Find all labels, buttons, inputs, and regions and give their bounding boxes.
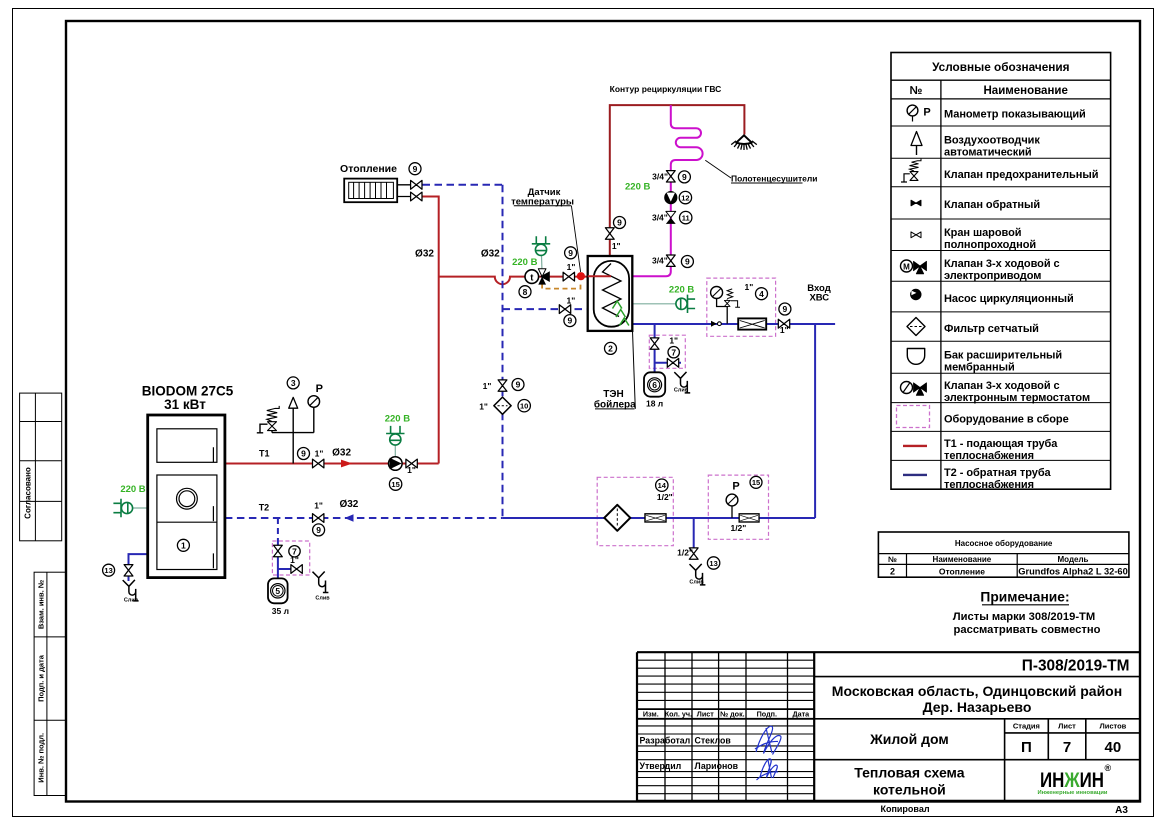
svg-text:Утвердил: Утвердил bbox=[640, 761, 682, 771]
svg-text:1": 1" bbox=[407, 465, 416, 475]
svg-text:Примечание:: Примечание: bbox=[980, 590, 1069, 605]
svg-text:Т2 - обратная труба: Т2 - обратная труба bbox=[944, 467, 1052, 479]
svg-text:Согласовано: Согласовано bbox=[24, 467, 33, 519]
svg-text:Насосное оборудование: Насосное оборудование bbox=[955, 539, 1053, 548]
svg-text:Наименование: Наименование bbox=[984, 85, 1068, 97]
svg-text:14: 14 bbox=[658, 481, 667, 490]
svg-text:Слив: Слив bbox=[124, 597, 139, 603]
svg-text:бойлера: бойлера bbox=[594, 398, 636, 410]
svg-text:Слив: Слив bbox=[674, 388, 689, 394]
svg-text:Тепловая схема: Тепловая схема bbox=[854, 765, 964, 781]
svg-text:10: 10 bbox=[520, 402, 528, 411]
svg-text:13: 13 bbox=[709, 559, 717, 568]
svg-text:П: П bbox=[1021, 739, 1032, 756]
svg-text:9: 9 bbox=[682, 172, 687, 182]
svg-text:Подп.: Подп. bbox=[757, 710, 777, 719]
svg-text:Лист: Лист bbox=[1058, 722, 1076, 731]
svg-text:31 кВт: 31 кВт bbox=[164, 397, 206, 412]
svg-text:3: 3 bbox=[291, 378, 296, 388]
svg-text:1/2": 1/2" bbox=[730, 523, 746, 533]
svg-text:7: 7 bbox=[1063, 739, 1071, 756]
svg-text:3/4": 3/4" bbox=[652, 213, 668, 223]
svg-text:Grundfos Alpha2 L 32-60: Grundfos Alpha2 L 32-60 bbox=[1018, 566, 1128, 576]
svg-text:8: 8 bbox=[523, 287, 528, 297]
svg-text:9: 9 bbox=[783, 304, 788, 314]
svg-text:7: 7 bbox=[671, 347, 676, 357]
svg-text:1": 1" bbox=[745, 282, 754, 292]
svg-text:T2: T2 bbox=[259, 503, 270, 513]
svg-text:1": 1" bbox=[567, 262, 576, 272]
svg-text:Клапан предохранительный: Клапан предохранительный bbox=[944, 169, 1098, 181]
svg-text:Оборудование в сборе: Оборудование в сборе bbox=[944, 413, 1069, 425]
svg-text:5: 5 bbox=[275, 586, 280, 596]
svg-text:220 В: 220 В bbox=[120, 484, 145, 495]
svg-text:Жилой дом: Жилой дом bbox=[869, 731, 949, 747]
svg-text:220 В: 220 В bbox=[385, 413, 410, 424]
svg-text:1/2": 1/2" bbox=[677, 547, 693, 557]
svg-text:1": 1" bbox=[479, 401, 488, 411]
svg-text:П-308/2019-ТМ: П-308/2019-ТМ bbox=[1022, 657, 1130, 674]
svg-text:1: 1 bbox=[181, 540, 186, 550]
svg-text:9: 9 bbox=[617, 218, 622, 228]
svg-text:2: 2 bbox=[608, 344, 613, 354]
svg-text:Клапан 3-х ходовой с: Клапан 3-х ходовой с bbox=[944, 258, 1060, 270]
svg-text:9: 9 bbox=[685, 257, 690, 267]
svg-text:автоматический: автоматический bbox=[944, 146, 1032, 158]
svg-text:3/4": 3/4" bbox=[652, 255, 668, 265]
svg-text:9: 9 bbox=[301, 449, 306, 459]
svg-text:Наименование: Наименование bbox=[933, 555, 992, 564]
svg-text:1": 1" bbox=[314, 500, 323, 510]
svg-text:9: 9 bbox=[568, 316, 573, 326]
svg-text:Полотенцесушители: Полотенцесушители bbox=[731, 174, 818, 184]
svg-text:Фильтр сетчатый: Фильтр сетчатый bbox=[944, 323, 1039, 335]
svg-text:220 В: 220 В bbox=[512, 257, 537, 268]
svg-text:Слив: Слив bbox=[315, 596, 330, 602]
svg-text:Ø32: Ø32 bbox=[339, 499, 358, 510]
svg-text:Кол. уч.: Кол. уч. bbox=[665, 710, 692, 719]
svg-text:9: 9 bbox=[316, 525, 321, 535]
svg-text:электронным термостатом: электронным термостатом bbox=[944, 392, 1090, 404]
svg-text:13: 13 bbox=[104, 566, 112, 575]
svg-text:2: 2 bbox=[890, 566, 895, 576]
svg-text:3/4": 3/4" bbox=[652, 171, 668, 181]
svg-text:Дер. Назарьево: Дер. Назарьево bbox=[923, 699, 1032, 715]
svg-text:Стеклов: Стеклов bbox=[695, 735, 732, 745]
svg-text:Дата: Дата bbox=[792, 710, 810, 719]
svg-text:4: 4 bbox=[759, 289, 764, 299]
svg-text:Ø32: Ø32 bbox=[481, 248, 500, 259]
svg-text:1": 1" bbox=[612, 241, 621, 251]
svg-text:220 В: 220 В bbox=[625, 181, 650, 192]
svg-text:Стадия: Стадия bbox=[1013, 722, 1040, 731]
svg-text:№ док.: № док. bbox=[720, 710, 745, 719]
svg-text:9: 9 bbox=[568, 248, 573, 258]
svg-text:рассматривать совместно: рассматривать совместно bbox=[954, 624, 1101, 636]
svg-text:Листов: Листов bbox=[1099, 722, 1126, 731]
svg-text:Ø32: Ø32 bbox=[415, 248, 434, 259]
svg-text:1/2": 1/2" bbox=[657, 492, 673, 502]
svg-text:1": 1" bbox=[483, 381, 492, 391]
svg-text:электроприводом: электроприводом bbox=[944, 270, 1041, 282]
svg-text:1": 1" bbox=[567, 296, 576, 306]
svg-text:11: 11 bbox=[682, 214, 690, 223]
svg-text:Московская область, Одинцовски: Московская область, Одинцовский район bbox=[832, 683, 1122, 699]
svg-text:15: 15 bbox=[752, 478, 760, 487]
svg-text:Ларионов: Ларионов bbox=[695, 761, 739, 771]
svg-text:P: P bbox=[923, 107, 930, 119]
svg-text:35 л: 35 л bbox=[272, 606, 289, 616]
svg-text:Манометр показывающий: Манометр показывающий bbox=[944, 109, 1086, 121]
svg-text:12: 12 bbox=[681, 194, 689, 203]
svg-text:1": 1" bbox=[669, 336, 678, 346]
svg-text:ИНЖИН: ИНЖИН bbox=[1040, 769, 1104, 792]
svg-text:Т1 - подающая труба: Т1 - подающая труба bbox=[944, 438, 1058, 450]
svg-text:P: P bbox=[732, 480, 739, 492]
svg-text:полнопроходной: полнопроходной bbox=[944, 239, 1036, 251]
svg-text:M: M bbox=[903, 263, 910, 272]
svg-text:Насос циркуляционный: Насос циркуляционный bbox=[944, 293, 1074, 305]
svg-text:T1: T1 bbox=[259, 448, 270, 458]
svg-text:Воздухоотводчик: Воздухоотводчик bbox=[944, 134, 1040, 146]
svg-text:Бак расширительный: Бак расширительный bbox=[944, 349, 1062, 361]
svg-text:Клапан 3-х ходовой с: Клапан 3-х ходовой с bbox=[944, 380, 1060, 392]
svg-text:220 В: 220 В bbox=[669, 284, 694, 295]
svg-text:Контур рециркуляции ГВС: Контур рециркуляции ГВС bbox=[610, 84, 722, 94]
svg-text:Листы марки 308/2019-ТМ: Листы марки 308/2019-ТМ bbox=[953, 611, 1095, 623]
svg-text:1": 1" bbox=[290, 555, 299, 565]
svg-text:Слив: Слив bbox=[689, 580, 704, 586]
svg-text:®: ® bbox=[1105, 763, 1112, 773]
svg-text:P: P bbox=[316, 383, 323, 395]
svg-text:Изм.: Изм. bbox=[643, 710, 659, 719]
svg-text:Клапан обратный: Клапан обратный bbox=[944, 199, 1040, 211]
svg-text:№: № bbox=[888, 555, 897, 564]
svg-text:Условные обозначения: Условные обозначения bbox=[932, 60, 1070, 74]
svg-text:15: 15 bbox=[391, 480, 399, 489]
svg-text:Инженерные инновации: Инженерные инновации bbox=[1038, 790, 1108, 796]
svg-text:Разработал: Разработал bbox=[640, 735, 691, 745]
svg-text:1": 1" bbox=[315, 448, 324, 458]
svg-text:теплоснабжения: теплоснабжения bbox=[944, 450, 1034, 462]
svg-text:18 л: 18 л bbox=[646, 398, 663, 408]
svg-text:Кран шаровой: Кран шаровой bbox=[944, 227, 1021, 239]
svg-text:1": 1" bbox=[780, 325, 789, 335]
svg-text:ХВС: ХВС bbox=[809, 292, 829, 303]
svg-text:Подп. и дата: Подп. и дата bbox=[37, 654, 46, 702]
svg-text:Модель: Модель bbox=[1058, 555, 1089, 564]
svg-text:9: 9 bbox=[516, 380, 521, 390]
svg-text:теплоснабжения: теплоснабжения bbox=[944, 479, 1034, 491]
svg-text:мембранный: мембранный bbox=[944, 361, 1015, 373]
svg-text:Взам. инв. №: Взам. инв. № bbox=[37, 580, 46, 629]
svg-text:9: 9 bbox=[413, 164, 418, 174]
svg-text:Копировал: Копировал bbox=[880, 804, 929, 814]
svg-text:Инв. № подл.: Инв. № подл. bbox=[37, 733, 46, 783]
svg-text:котельной: котельной bbox=[873, 782, 946, 798]
svg-text:А3: А3 bbox=[1115, 805, 1128, 816]
svg-text:40: 40 bbox=[1105, 739, 1122, 756]
svg-text:Отопление: Отопление bbox=[340, 163, 397, 175]
svg-text:Лист: Лист bbox=[697, 710, 714, 719]
svg-text:№: № bbox=[910, 85, 923, 97]
svg-text:Ø32: Ø32 bbox=[332, 447, 351, 458]
svg-text:6: 6 bbox=[652, 380, 657, 390]
svg-text:Отопление: Отопление bbox=[939, 566, 985, 576]
